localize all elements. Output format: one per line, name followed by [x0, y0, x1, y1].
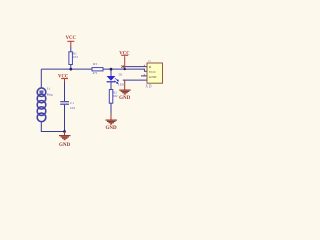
svg-text:GND: GND — [105, 126, 117, 131]
svg-text:D1: D1 — [119, 72, 123, 76]
svg-text:U1: U1 — [148, 60, 152, 63]
svg-text:104: 104 — [70, 106, 75, 110]
svg-text:VCC: VCC — [119, 52, 130, 57]
svg-text:X D: X D — [145, 85, 151, 89]
svg-text:VCC: VCC — [149, 70, 157, 74]
svg-text:GND: GND — [119, 96, 131, 101]
svg-text:LED: LED — [118, 83, 125, 87]
svg-text:R3: R3 — [93, 62, 97, 66]
svg-text:VCC: VCC — [66, 36, 77, 41]
svg-text:102: 102 — [113, 94, 118, 98]
svg-text:GND: GND — [149, 75, 157, 79]
svg-text:GND: GND — [59, 143, 71, 148]
svg-text:L1: L1 — [47, 87, 51, 91]
svg-text:Mag: Mag — [47, 92, 53, 96]
svg-text:103: 103 — [73, 55, 78, 59]
svg-text:VCC: VCC — [58, 74, 69, 79]
svg-text:C1: C1 — [70, 101, 74, 105]
svg-text:471: 471 — [93, 71, 98, 75]
